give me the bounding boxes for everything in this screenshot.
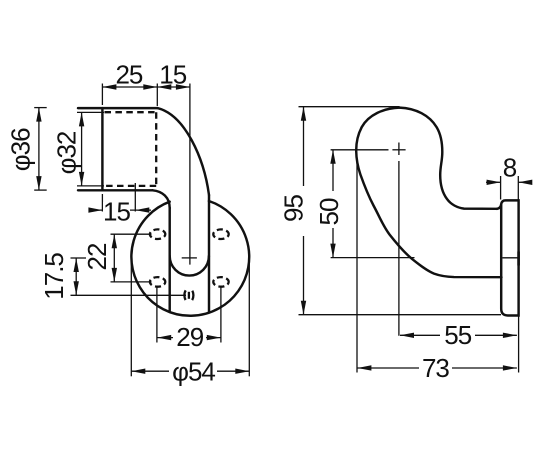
arrowhead dim73 right	[503, 365, 517, 370]
svg-text:17.5: 17.5	[39, 253, 69, 300]
side view: plate screw hole center line	[503, 257, 520, 259]
dim 25 left extension line	[101, 84, 103, 106]
front view: flange circle phi54	[131, 201, 249, 316]
bg label phi54	[169, 362, 217, 380]
dim phi54 left extension line	[130, 261, 132, 376]
arrowhead dim15top left	[157, 84, 171, 89]
arrowhead dim15mid right (outside pointing left)	[135, 207, 149, 212]
side view: hook outer profile left side (bulb left + sweep to arm bottom)	[356, 108, 501, 278]
bolt hole top-left	[150, 229, 165, 239]
dim phi36 arrow line	[38, 108, 40, 191]
front view: socket bore dashed top line (phi32)	[105, 111, 157, 113]
bg label 15 mid	[103, 202, 130, 219]
arrowhead dim25 right	[143, 84, 157, 89]
bolt hole top-right	[213, 229, 228, 239]
front view: socket left face line	[101, 108, 103, 190]
arrowhead dim25 left	[102, 84, 116, 89]
front view: socket bore dashed end line	[155, 112, 157, 186]
arrowhead dim55 left	[400, 333, 414, 338]
dim 73 line	[357, 367, 517, 369]
dim 15 socket line	[90, 209, 152, 211]
arrowhead dim50 down	[330, 244, 335, 258]
dim 73 left extension line	[356, 160, 358, 373]
bolt hole bottom-right	[213, 277, 228, 287]
dim 15 right extension line	[134, 183, 136, 212]
front view: vertical center line	[189, 84, 191, 265]
front view: center cross horizontal bar	[182, 257, 197, 259]
dim 29 right extension line	[220, 288, 222, 343]
dim phi36 top tick	[34, 107, 47, 109]
arrowhead dim17.5 up	[74, 258, 79, 272]
dim 55/73 right extension line (plate face extended)	[518, 316, 520, 373]
arrowhead phi36 up	[36, 108, 41, 122]
dim 50 bottom extension line	[331, 257, 415, 259]
dim 29 left extension line	[156, 288, 158, 343]
dim 22 arrow line	[113, 234, 115, 282]
arrowhead dim17.5 down	[74, 281, 79, 295]
arrowhead phi32 up	[79, 112, 84, 126]
arrowhead dim15mid left (outside pointing right)	[88, 207, 102, 212]
front view: stem right line	[208, 195, 210, 313]
arrowhead dim29 left	[157, 335, 171, 340]
svg-text:φ36: φ36	[6, 128, 36, 171]
bg label 55	[440, 326, 475, 343]
arrowhead dim15top right	[176, 84, 190, 89]
side view: screw hole mark on plate right face	[517, 252, 520, 266]
dim 50 top extension line	[331, 149, 389, 151]
dim 95 top extension line	[299, 106, 400, 108]
arrowhead dim55 right	[503, 333, 517, 338]
arrowhead phi32 down	[79, 172, 84, 186]
side view: vertical center line through hook	[398, 143, 400, 336]
arrowhead dim95 up	[301, 107, 306, 121]
front view: socket bore dashed bottom line	[105, 185, 157, 187]
front view: top-right corner curve into stem right	[158, 108, 210, 195]
bg label 73	[419, 359, 452, 376]
arrowhead dim29 right	[207, 335, 221, 340]
dim 95 bottom extension line	[299, 314, 502, 316]
svg-text:φ54: φ54	[172, 357, 215, 387]
side view: center cross horizontal bar	[392, 149, 405, 151]
dim phi36 bottom tick	[34, 189, 47, 191]
dim phi54 right extension line	[248, 261, 250, 376]
front view: hook tip U arc	[170, 256, 209, 276]
center slot hole on hook tip	[184, 288, 193, 302]
dim 17.5 top extension line	[71, 257, 87, 259]
dim phi54 line	[131, 370, 249, 372]
dim 17.5 arrow line	[75, 258, 77, 295]
svg-text:8: 8	[503, 152, 517, 182]
arrowhead dim8 left (outside pointing right)	[487, 180, 501, 185]
front view: stem left line	[168, 208, 170, 312]
svg-text:29: 29	[176, 322, 203, 352]
front view: socket top outer line	[78, 107, 158, 109]
bolt hole bottom-left	[150, 277, 165, 287]
arrowhead phi54 left	[131, 369, 145, 374]
dim phi32 arrow line	[81, 112, 83, 185]
dim phi32 top extension stub	[77, 111, 104, 113]
dim 50 arrow line	[332, 150, 334, 258]
side view: hook outer profile right side (bulb right + S into arm top)	[400, 108, 498, 209]
side view: wall plate outline	[497, 200, 519, 315]
dim 15 left extension line (below socket)	[101, 194, 103, 212]
arrowhead dim95 down	[301, 301, 306, 315]
arrowhead dim22 down	[112, 268, 117, 282]
svg-text:22: 22	[82, 243, 112, 270]
svg-text:95: 95	[279, 195, 309, 222]
arrowhead phi36 down	[36, 176, 41, 190]
arrowhead dim50 up	[330, 150, 335, 164]
svg-text:φ32: φ32	[52, 131, 82, 174]
svg-text:50: 50	[314, 198, 344, 225]
svg-text:25: 25	[115, 59, 142, 89]
dim 8 line left tail	[486, 181, 501, 183]
arrowhead dim8 right (outside pointing left)	[518, 180, 532, 185]
dim phi32 bottom extension stub	[77, 185, 104, 187]
dim 8 left extension line	[500, 176, 502, 200]
svg-text:73: 73	[422, 353, 449, 383]
arrowhead dim73 left	[357, 365, 371, 370]
dim 55 line	[400, 334, 517, 336]
front view: socket bottom outer line	[78, 189, 153, 191]
dim 29 line	[157, 337, 221, 339]
arrowhead phi54 right	[235, 369, 249, 374]
dim 8 line right tail	[518, 181, 531, 183]
dim 22 bottom extension line	[111, 281, 152, 283]
bg label 29	[173, 328, 206, 345]
dim 8 right extension line	[517, 176, 519, 203]
dim 17.5 bottom extension line	[71, 294, 187, 296]
center slot tick	[188, 292, 190, 299]
dim 22 top extension line	[111, 233, 152, 235]
dim 95 arrow line	[303, 107, 305, 315]
front view: bottom-left corner curve into stem left	[153, 190, 170, 208]
arrowhead dim22 up	[112, 234, 117, 248]
svg-text:15: 15	[103, 197, 130, 227]
svg-text:55: 55	[444, 320, 471, 350]
svg-text:15: 15	[159, 59, 186, 89]
dim 25/15 middle extension line	[156, 84, 158, 107]
dim 25/15 line	[102, 86, 189, 88]
